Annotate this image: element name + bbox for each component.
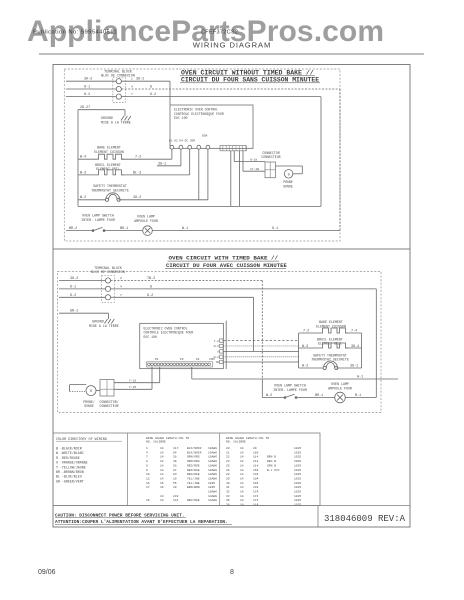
svg-text:10AWG: 10AWG — [208, 456, 217, 459]
svg-text:14: 14 — [160, 477, 164, 480]
svg-text:BRN/BRN: BRN/BRN — [187, 485, 200, 489]
svg-text:OVEN CIRCUIT WITHOUT TIMED BAK: OVEN CIRCUIT WITHOUT TIMED BAKE // — [181, 69, 314, 76]
svg-text:38-2: 38-2 — [70, 277, 78, 281]
svg-text:7: 7 — [146, 456, 148, 459]
svg-text:GROUND: GROUND — [101, 116, 113, 120]
ground c1 — [124, 114, 126, 117]
wire EOC t1 to bus dashed — [223, 340, 298, 342]
oven lamp c1 — [143, 226, 153, 236]
oven lamp c2 — [335, 392, 346, 403]
svg-text:33: 33 — [226, 495, 230, 498]
svg-text:7-4: 7-4 — [351, 330, 357, 334]
svg-text:174: 174 — [253, 499, 259, 502]
svg-text:CONNECTEUR: CONNECTEUR — [99, 404, 118, 408]
svg-text:114: 114 — [253, 460, 259, 463]
svg-text:GRN B: GRN B — [267, 464, 276, 467]
wire bake left c2 — [299, 332, 320, 334]
svg-text:W-2: W-2 — [214, 356, 219, 359]
svg-text:9-1: 9-1 — [84, 85, 90, 89]
wire EOC pin4 down — [198, 149, 200, 200]
svg-text:10AWG: 10AWG — [208, 477, 217, 480]
EOC box c1 — [170, 105, 253, 148]
long bottom wire c2 — [192, 378, 398, 380]
probe wire lower riser c2 — [151, 367, 153, 389]
svg-text:CONNECTEUR: CONNECTEUR — [261, 155, 280, 159]
svg-text:58: 58 — [173, 464, 177, 467]
terminal N c2 — [105, 286, 110, 291]
svg-text:Y -YELLOW/JAUNE: Y -YELLOW/JAUNE — [56, 465, 86, 469]
svg-text:55: 55 — [173, 482, 177, 485]
svg-text:9-2: 9-2 — [147, 294, 153, 298]
svg-text:BR-2: BR-2 — [69, 227, 77, 231]
svg-text:30-2: 30-2 — [84, 78, 92, 82]
svg-text:1025: 1025 — [294, 464, 301, 467]
svg-text:1: 1 — [146, 447, 148, 450]
svg-text:AMPOULE FOUR: AMPOULE FOUR — [134, 219, 158, 223]
ground drop c1 — [124, 110, 126, 114]
svg-text:14: 14 — [240, 456, 244, 459]
lamp wire c1 a — [66, 230, 93, 232]
svg-text:GROUND: GROUND — [92, 320, 104, 324]
svg-text:14: 14 — [240, 495, 244, 498]
svg-text:14: 14 — [240, 473, 244, 476]
svg-text:MISE A LA TERRE: MISE A LA TERRE — [101, 121, 131, 125]
svg-text:25: 25 — [226, 464, 230, 467]
svg-text:MISE A LA TERRE: MISE A LA TERRE — [89, 324, 119, 328]
svg-text:8-1: 8-1 — [272, 227, 278, 231]
wire broil left c1 — [78, 174, 96, 176]
svg-text:8-2: 8-2 — [84, 93, 90, 97]
svg-text:NO. CALIBRE: NO. CALIBRE — [226, 441, 246, 444]
svg-text:14: 14 — [240, 464, 244, 467]
svg-text:YEL/JNE: YEL/JNE — [187, 481, 200, 485]
svg-text:114: 114 — [253, 464, 259, 467]
svg-text:49: 49 — [173, 460, 177, 463]
wire row1 c2 right dashed — [111, 280, 263, 282]
ground c2 — [108, 317, 110, 320]
svg-text:8: 8 — [146, 460, 148, 463]
svg-text:RED/RGE: RED/RGE — [187, 468, 200, 472]
bottom return wire c1 — [78, 205, 321, 207]
probe wire upper c2 — [114, 382, 160, 384]
svg-text:10AWG: 10AWG — [208, 464, 217, 467]
svg-text:INTER. LAMPE FOUR: INTER. LAMPE FOUR — [81, 218, 115, 222]
wire down x253 c2 — [253, 297, 255, 351]
wire down x321 c1 — [320, 97, 322, 207]
svg-text:S: S — [288, 173, 290, 177]
svg-text:8: 8 — [150, 285, 152, 289]
svg-text:17-1B: 17-1B — [250, 168, 259, 171]
svg-text:A-1: A-1 — [357, 375, 363, 379]
svg-text:1025: 1025 — [294, 460, 301, 463]
wire stub x226 c2 — [225, 321, 227, 369]
svg-text:CFEF372CS2: CFEF372CS2 — [201, 30, 238, 36]
svg-text:W -WHITE/BLANC: W -WHITE/BLANC — [56, 451, 84, 455]
svg-text:7-2: 7-2 — [214, 340, 219, 343]
ground wire c1 — [78, 109, 125, 111]
svg-text:B-L PVC: B-L PVC — [267, 469, 280, 472]
EOC pin 1 c1 — [170, 145, 174, 149]
wire row2 c1 right dashed — [121, 88, 340, 90]
wire down x340 c1 — [339, 89, 341, 231]
svg-text:1025: 1025 — [294, 495, 301, 498]
bake element heater c2 — [320, 328, 348, 333]
wire jog 38-1 — [157, 165, 181, 167]
terminal block dashed box c2 — [102, 276, 115, 303]
svg-text:O -ORANGE/ORANGE: O -ORANGE/ORANGE — [56, 461, 88, 465]
table divider 1 — [127, 433, 129, 506]
broil element heater c1 — [96, 170, 124, 175]
svg-text:BLOC DE CONNEXION: BLOC DE CONNEXION — [91, 270, 125, 274]
svg-text:10AWG: 10AWG — [208, 469, 217, 472]
caution underline 1 — [55, 517, 186, 519]
svg-text:W-4: W-4 — [80, 156, 86, 160]
svg-text:10AWG: 10AWG — [208, 473, 217, 476]
probe loop left wire c2 — [69, 385, 71, 392]
svg-text:TB-2: TB-2 — [147, 277, 155, 281]
svg-text:Y-15: Y-15 — [129, 380, 136, 383]
probe wire upper riser c2 — [159, 367, 161, 383]
terminal L2 c2 — [105, 295, 110, 300]
caution box top line — [53, 505, 410, 507]
wire thermostat right c2 — [336, 367, 361, 369]
probe c1 — [284, 170, 293, 179]
svg-text:9: 9 — [146, 469, 148, 472]
svg-text:232: 232 — [173, 495, 179, 498]
caution underline 2 — [55, 523, 232, 525]
svg-text:K1 K2 K4 DC COM: K1 K2 K4 DC COM — [169, 140, 195, 143]
wire strip to connector 2 — [242, 151, 244, 171]
wire row2 c2 right — [111, 288, 377, 290]
svg-text:WIRE GAUGE LENGTH COL TR: WIRE GAUGE LENGTH COL TR — [226, 437, 269, 440]
EOC right terminal 2 c2 — [220, 344, 223, 347]
svg-text:14: 14 — [240, 460, 244, 463]
svg-text:BL-3: BL-3 — [133, 171, 141, 175]
wire row2 c1 left — [66, 88, 116, 90]
svg-text:INTER. LAMPE FOUR: INTER. LAMPE FOUR — [273, 388, 307, 392]
svg-text:BLOC DE CONNEXION: BLOC DE CONNEXION — [101, 73, 135, 77]
svg-text:RED/RGE: RED/RGE — [187, 498, 200, 502]
wire EOC pin3 down — [189, 149, 191, 175]
wire row1 c1 left — [66, 80, 116, 82]
svg-text:31: 31 — [226, 486, 230, 489]
svg-text:SONDE: SONDE — [84, 404, 94, 408]
ground wire c2 — [59, 312, 109, 314]
table divider 2 — [219, 433, 221, 506]
svg-text:134: 134 — [253, 486, 259, 489]
wire strip to connector 1 — [233, 151, 235, 162]
svg-text:14: 14 — [240, 477, 244, 480]
svg-text:156: 156 — [253, 469, 259, 472]
EOC pin 3 c1 — [188, 145, 192, 149]
bake element heater c1 — [96, 154, 124, 159]
svg-text:14: 14 — [160, 473, 164, 476]
svg-text:9: 9 — [146, 464, 148, 467]
svg-text:1025: 1025 — [294, 451, 301, 454]
svg-text:ORN/ORG: ORN/ORG — [187, 459, 200, 463]
svg-text:RED/RGE: RED/RGE — [187, 472, 200, 476]
svg-text:RED B: RED B — [267, 460, 276, 463]
svg-text:20: 20 — [226, 447, 230, 450]
svg-text:1025: 1025 — [294, 499, 301, 502]
svg-text:10AWG: 10AWG — [208, 491, 217, 494]
svg-text:4: 4 — [146, 451, 148, 454]
svg-text:114: 114 — [253, 456, 259, 459]
svg-text:R -RED/ROUGE: R -RED/ROUGE — [56, 456, 80, 460]
svg-text:W-3: W-3 — [302, 345, 308, 349]
left bus c1 — [77, 110, 79, 207]
svg-text:K1: K1 — [196, 358, 200, 361]
svg-text:14: 14 — [160, 499, 164, 502]
svg-text:Publication No: 5995440511: Publication No: 5995440511 — [33, 30, 117, 36]
svg-text:BLK/NOIR: BLK/NOIR — [187, 450, 202, 454]
wire broil right c2 — [346, 347, 362, 349]
svg-text:ORN/ORG: ORN/ORG — [187, 455, 200, 459]
svg-text:84: 84 — [173, 451, 177, 454]
section divider line — [53, 248, 410, 250]
wire row1 down to EOC — [169, 81, 171, 105]
EOC right terminal 3 c2 — [220, 350, 223, 353]
svg-text:W-1: W-1 — [182, 227, 188, 231]
svg-text:14: 14 — [160, 451, 164, 454]
svg-text:W-2: W-2 — [266, 394, 272, 398]
svg-text:9-1: 9-1 — [70, 285, 76, 289]
svg-text:SONDE: SONDE — [283, 184, 293, 188]
wire row3 c2 right — [111, 296, 254, 298]
probe loop top wire c2 — [70, 384, 87, 386]
svg-text:26: 26 — [226, 469, 230, 472]
svg-text:10AWG: 10AWG — [208, 447, 217, 450]
lamp wire c2 b — [296, 397, 335, 399]
svg-text:1025: 1025 — [294, 491, 301, 494]
svg-text:7-2: 7-2 — [135, 156, 141, 160]
EOC bottom drop c2 — [191, 367, 193, 379]
wire table frame — [53, 433, 320, 506]
lamp wire c2 c — [345, 397, 376, 399]
wire EOC t3 to bus — [223, 350, 298, 352]
svg-text:114: 114 — [253, 504, 259, 507]
wire EOC pin5 down — [207, 149, 209, 200]
svg-text:14: 14 — [240, 491, 244, 494]
svg-text:14: 14 — [240, 451, 244, 454]
svg-text:1025: 1025 — [294, 477, 301, 480]
svg-text:14: 14 — [160, 456, 164, 459]
wire down x262 c2 dashed — [261, 281, 263, 380]
svg-text:16: 16 — [160, 486, 164, 489]
svg-text:15: 15 — [146, 482, 150, 485]
wire broil left c2 — [299, 347, 320, 349]
svg-text:EOC 100: EOC 100 — [174, 116, 187, 120]
svg-text:14AWG: 14AWG — [208, 495, 217, 498]
wire thermostat right c1 — [119, 199, 208, 201]
terminal block dashed box c1 — [113, 78, 126, 103]
element right bus c2 — [361, 333, 363, 368]
svg-text:318046009 REV:A: 318046009 REV:A — [324, 514, 406, 524]
svg-text:14: 14 — [240, 482, 244, 485]
svg-text:ELEMENT GRIL: ELEMENT GRIL — [318, 341, 342, 345]
svg-text:1: 1 — [131, 78, 133, 81]
broil element heater c2 — [320, 343, 348, 348]
wire EOC t4 to bus dotted — [223, 356, 298, 358]
svg-text:7: 7 — [120, 294, 122, 297]
wire row3 c1 right — [121, 96, 321, 98]
EOC right terminal 4 c2 — [220, 355, 223, 358]
wire bake right c2 — [346, 332, 362, 334]
svg-text:10: 10 — [146, 473, 150, 476]
wire thermostat left c1 — [78, 199, 107, 201]
svg-text:ELEMENT CUISSON: ELEMENT CUISSON — [94, 150, 124, 154]
svg-text:7-2: 7-2 — [303, 330, 309, 334]
svg-text:GR -GREEN/VERT: GR -GREEN/VERT — [56, 479, 84, 483]
svg-text:14: 14 — [240, 447, 244, 450]
wire row1 c1 right — [121, 80, 170, 82]
svg-text:28: 28 — [226, 473, 230, 476]
safety thermostat c1 — [106, 193, 120, 200]
svg-text:1025: 1025 — [294, 447, 301, 450]
svg-text:7B: 7B — [215, 361, 219, 364]
svg-text:7: 7 — [131, 93, 133, 96]
svg-text:38-1: 38-1 — [350, 365, 358, 369]
svg-text:18: 18 — [240, 504, 244, 507]
header rule — [39, 53, 424, 55]
EOC connector strip c1 — [220, 146, 246, 151]
svg-text:09/06: 09/06 — [38, 569, 56, 576]
svg-text:4: 4 — [120, 285, 122, 288]
svg-text:104: 104 — [253, 482, 259, 485]
svg-text:1025: 1025 — [294, 469, 301, 472]
svg-text:B -BLACK/NOIR: B -BLACK/NOIR — [56, 447, 82, 451]
svg-text:1025: 1025 — [294, 504, 301, 507]
oven lamp switch c1 — [92, 230, 94, 232]
svg-text:WIRING DIAGRAM: WIRING DIAGRAM — [193, 41, 271, 50]
svg-text:174: 174 — [253, 495, 259, 498]
svg-text:P1: P1 — [155, 358, 159, 361]
wire row1 c2 left — [59, 280, 105, 282]
wire down x376 c2 — [375, 289, 377, 398]
svg-text:BRN B: BRN B — [267, 456, 276, 459]
svg-text:19: 19 — [173, 477, 177, 480]
ground drop c2 — [108, 313, 110, 316]
svg-text:38-1: 38-1 — [158, 162, 166, 166]
svg-text:1025: 1025 — [208, 486, 215, 489]
svg-text:23: 23 — [226, 460, 230, 463]
EOC right terminal 1 c2 — [220, 339, 223, 342]
svg-text:14: 14 — [160, 447, 164, 450]
svg-text:14: 14 — [240, 469, 244, 472]
EOC pin 5 c1 — [206, 145, 210, 149]
circuit 1 dashed enclosure — [64, 69, 340, 241]
svg-text:RED/RGE: RED/RGE — [187, 463, 200, 467]
svg-text:Y-25: Y-25 — [129, 386, 136, 389]
element left bus c2 — [298, 333, 300, 368]
probe loop wire c1 — [276, 165, 303, 167]
svg-text:117: 117 — [173, 447, 179, 450]
probe wire lower c2 — [114, 388, 152, 390]
svg-text:19: 19 — [146, 499, 150, 502]
wire row3 c2 left — [59, 296, 105, 298]
svg-text:1025: 1025 — [294, 486, 301, 489]
wire broil right c1 — [122, 174, 190, 176]
svg-text:29: 29 — [226, 477, 230, 480]
circuit 2 dashed enclosure — [58, 272, 382, 413]
lamp wire c2 a — [262, 397, 285, 399]
wire bake left c1 — [78, 158, 96, 160]
EOC right terminal 5 c2 — [220, 360, 223, 363]
svg-text:14: 14 — [160, 460, 164, 463]
svg-text:8-2: 8-2 — [70, 294, 76, 298]
probe c2 — [86, 386, 96, 396]
svg-text:63: 63 — [173, 473, 177, 476]
lamp wire c1 b — [104, 230, 143, 232]
svg-text:P2: P2 — [180, 358, 184, 361]
svg-text:168: 168 — [253, 451, 259, 454]
svg-text:38: 38 — [226, 504, 230, 507]
svg-text:14: 14 — [160, 464, 164, 467]
svg-text:8: 8 — [230, 569, 234, 576]
svg-text:17: 17 — [146, 486, 150, 489]
safety thermostat c2 — [324, 361, 338, 368]
svg-text:9-2: 9-2 — [150, 93, 156, 97]
svg-text:BR-1: BR-1 — [120, 227, 128, 231]
svg-text:134: 134 — [253, 473, 259, 476]
svg-text:14: 14 — [160, 469, 164, 472]
wire strip down a c1 — [230, 151, 232, 207]
EOC box c2 — [140, 323, 224, 368]
svg-text:BL -BLUE/BLEU: BL -BLUE/BLEU — [56, 475, 82, 479]
svg-text:10AWG: 10AWG — [208, 451, 217, 454]
svg-text:ELEMENT GRIL: ELEMENT GRIL — [96, 167, 120, 171]
svg-text:38-2: 38-2 — [136, 78, 144, 82]
svg-text:B-1: B-1 — [355, 394, 361, 398]
svg-text:174: 174 — [253, 491, 259, 494]
svg-text:38-2: 38-2 — [133, 196, 141, 200]
EOC pin 2 c1 — [179, 145, 183, 149]
svg-text:W-2: W-2 — [302, 365, 308, 369]
wire thermostat left c2 — [299, 367, 325, 369]
svg-text:CIRCUIT DU FOUR SANS CUISSON M: CIRCUIT DU FOUR SANS CUISSON MINUTEE — [181, 76, 319, 83]
sheet border — [53, 65, 410, 528]
svg-text:10AWG: 10AWG — [208, 460, 217, 463]
svg-text:36: 36 — [226, 499, 230, 502]
wire EOC pin1 down — [171, 149, 173, 159]
terminal L1 c2 — [105, 278, 110, 283]
svg-text:104: 104 — [253, 477, 259, 480]
svg-text:16: 16 — [160, 482, 164, 485]
svg-text:YEL/JNE: YEL/JNE — [187, 476, 200, 480]
svg-text:38-4: 38-4 — [351, 345, 359, 349]
svg-text:8: 8 — [150, 85, 152, 89]
wire EOC t2 to bus dotted — [223, 345, 298, 347]
caution/part divider — [317, 506, 319, 528]
oven lamp switch c2 — [284, 397, 286, 399]
svg-text:21: 21 — [226, 451, 230, 454]
EOC pin 4 c1 — [197, 145, 201, 149]
svg-text:14: 14 — [240, 486, 244, 489]
lamp wire c1 c — [152, 230, 340, 232]
svg-text:BR -BROWN/BRUN: BR -BROWN/BRUN — [56, 470, 84, 474]
svg-text:2: 2 — [120, 277, 122, 280]
wire strip down b c1 — [239, 151, 241, 207]
terminal N c1 — [116, 86, 121, 91]
svg-text:THERMOSTAT SECURITE: THERMOSTAT SECURITE — [91, 188, 129, 192]
svg-text:BLK/NOIR: BLK/NOIR — [187, 446, 202, 450]
svg-text:1025: 1025 — [294, 456, 301, 459]
svg-text:87: 87 — [173, 469, 177, 472]
svg-text:EOC 100: EOC 100 — [144, 335, 157, 339]
svg-text:32: 32 — [226, 491, 230, 494]
svg-text:8-18: 8-18 — [250, 158, 257, 161]
svg-text:141: 141 — [173, 499, 179, 502]
